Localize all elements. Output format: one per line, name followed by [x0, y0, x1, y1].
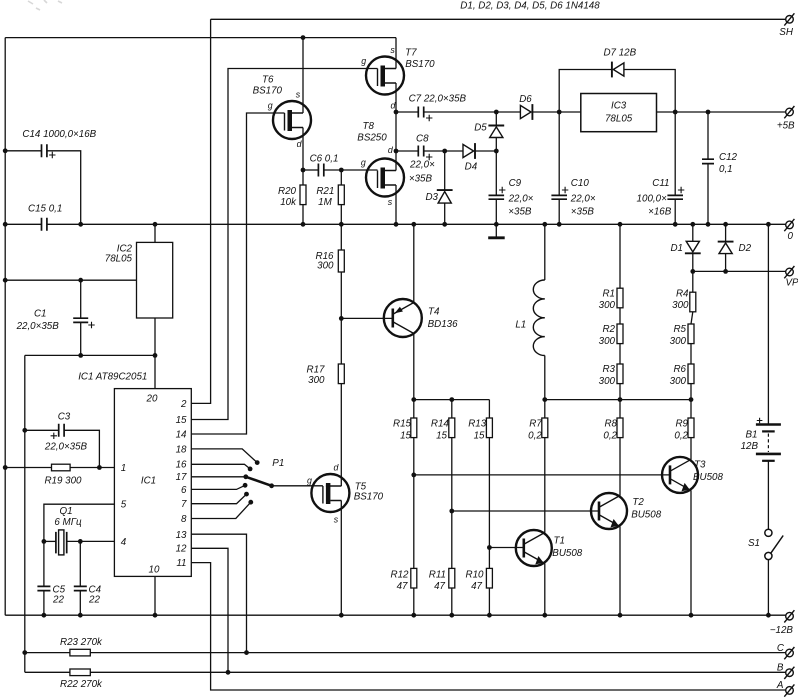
wire left border — [4, 38, 6, 616]
junction D4 C9 node — [494, 149, 499, 154]
svg-text:×16B: ×16B — [648, 206, 672, 217]
wire top SH rail — [211, 18, 786, 20]
junction R1 0 rail — [618, 222, 623, 227]
wire IC2 top pin — [154, 224, 156, 242]
svg-text:6: 6 — [181, 485, 187, 496]
resistor R2 — [617, 324, 623, 344]
svg-text:D2: D2 — [739, 243, 752, 254]
terminal VP — [784, 266, 794, 278]
svg-text:300: 300 — [670, 336, 687, 347]
svg-text:BU508: BU508 — [552, 548, 583, 559]
plus C9 — [499, 187, 505, 193]
svg-text:12B: 12B — [741, 441, 759, 452]
wire C4 to -12 rail — [79, 591, 81, 616]
IC2 box — [137, 242, 173, 318]
diode D3 — [437, 190, 453, 203]
svg-text:R2: R2 — [602, 324, 615, 335]
resistor R8 — [617, 418, 623, 438]
resistor R16 — [338, 250, 344, 272]
wire T6 source to rail — [302, 38, 304, 113]
terminal A — [784, 684, 794, 696]
junction left border C14 row — [3, 148, 8, 153]
wire L1 bottom leg — [544, 356, 546, 400]
wire R20 leg — [302, 170, 304, 224]
wire D5 node to D6 — [496, 111, 520, 113]
wire C10 leg lower — [558, 199, 560, 224]
junction T4 emitter 0 rail — [411, 222, 416, 227]
wire R8 to T2 collector — [619, 438, 621, 496]
plus C11 — [678, 187, 684, 193]
junction C11 0 rail — [673, 222, 678, 227]
svg-text:R19 300: R19 300 — [44, 476, 82, 487]
resistor R5 — [688, 324, 694, 344]
wire R4 top leg — [692, 271, 694, 292]
svg-text:s: s — [334, 514, 339, 524]
svg-text:R15: R15 — [393, 419, 412, 430]
wire R6 bottom — [690, 384, 692, 400]
svg-text:B1: B1 — [746, 430, 758, 441]
wire R13 top leg — [488, 400, 490, 418]
capacitor C1 — [73, 318, 88, 322]
wire T2 base row — [452, 510, 599, 512]
resistor R9 — [688, 418, 694, 438]
wire T6 gate from pin 14 — [191, 113, 284, 434]
terminal 0 — [784, 219, 794, 231]
junction C6 right R21 T8 gate — [339, 168, 344, 173]
svg-text:T3: T3 — [694, 460, 706, 471]
ground — [488, 236, 505, 239]
wire R5-R6 link — [690, 344, 692, 364]
wire -12B rail — [5, 614, 786, 616]
wire C12 leg lower — [707, 164, 709, 225]
svg-text:R23 270k: R23 270k — [60, 637, 103, 648]
wire R4-R5 link — [691, 312, 693, 324]
svg-text:T2: T2 — [632, 497, 644, 508]
wire T7 gate from pin 15 — [191, 69, 377, 420]
svg-text:T1: T1 — [554, 536, 565, 547]
transistor T5 — [311, 474, 349, 512]
svg-text:R9: R9 — [675, 419, 688, 430]
junction D2 VP row — [723, 269, 728, 274]
wire IC1 pin 10 — [154, 576, 156, 615]
wire battery to S1 — [767, 461, 769, 529]
wire row B — [25, 671, 70, 673]
wire pin 12 to row B — [191, 548, 228, 672]
svg-text:D1, D2, D3, D4, D5, D6 1N4148: D1, D2, D3, D4, D5, D6 1N4148 — [460, 1, 600, 12]
svg-text:C10: C10 — [571, 178, 590, 189]
terminal -12B — [784, 610, 794, 622]
junction D1 0 rail — [690, 222, 695, 227]
wire crystal row left — [44, 540, 56, 542]
terminal B — [784, 667, 794, 679]
svg-text:D4: D4 — [465, 162, 478, 173]
wire C5 leg — [43, 541, 45, 586]
terminal C — [784, 647, 794, 659]
svg-text:R21: R21 — [316, 186, 334, 197]
svg-text:R10: R10 — [466, 570, 485, 581]
svg-text:R4: R4 — [676, 288, 689, 299]
junction T3 emitter -12 rail — [689, 613, 694, 618]
svg-text:22,0×: 22,0× — [409, 160, 435, 171]
wire R2-R3 link — [619, 344, 621, 364]
resistor R6 — [688, 364, 694, 384]
svg-text:22: 22 — [88, 594, 100, 605]
junction left border 0 rail — [3, 222, 8, 227]
svg-text:g: g — [361, 158, 366, 168]
svg-text:C12: C12 — [719, 152, 738, 163]
svg-text:R12: R12 — [391, 570, 410, 581]
battery B1 — [756, 425, 781, 461]
svg-text:C7 22,0×35B: C7 22,0×35B — [409, 94, 467, 105]
svg-text:Q1: Q1 — [59, 506, 72, 517]
wire pin 7 stub — [191, 494, 246, 504]
svg-text:300: 300 — [308, 375, 325, 386]
svg-text:×35B: ×35B — [409, 173, 433, 184]
svg-text:7: 7 — [181, 499, 187, 510]
wire D2 top leg — [725, 224, 727, 241]
wire VP row — [693, 270, 786, 272]
transistor T4 — [384, 299, 422, 337]
wire R10 to -12 rail — [488, 588, 490, 615]
wire second top rail — [5, 37, 396, 39]
wire D7 to output corner — [624, 70, 675, 113]
junction R3 R8 node — [618, 397, 623, 402]
wire pin 13 to row C — [191, 534, 246, 652]
wire R1 chain top — [619, 224, 621, 288]
wire row B right — [90, 671, 786, 673]
diode D4 — [463, 143, 475, 159]
svg-text:R14: R14 — [431, 419, 450, 430]
svg-text:VP: VP — [786, 277, 798, 288]
transistor T1 — [516, 530, 552, 566]
junction C5 -12 rail — [42, 613, 47, 618]
junction R13 R10 T1 base — [487, 545, 492, 550]
wire C14 row left — [5, 150, 41, 152]
junction R20 0 rail — [301, 222, 306, 227]
wire row C right — [90, 652, 786, 654]
resistor R17 — [338, 364, 344, 384]
wire C8 row — [396, 150, 418, 152]
svg-text:6 МГц: 6 МГц — [54, 517, 82, 528]
svg-text:300: 300 — [672, 300, 689, 311]
svg-text:R22 270k: R22 270k — [60, 679, 103, 690]
capacitor C14 — [42, 144, 47, 157]
IC1 box — [114, 389, 191, 577]
junction crystal left — [42, 539, 47, 544]
wire T7 source — [395, 38, 397, 69]
wire VCC to IC1 pin 20 — [154, 355, 156, 388]
wire IC2 input row — [5, 279, 136, 281]
junction R6 R9 node — [689, 397, 694, 402]
capacitor C11 — [667, 195, 683, 199]
svg-text:C6 0,1: C6 0,1 — [310, 154, 339, 165]
resistor R21 — [338, 185, 344, 205]
junction IC2 top pin — [153, 222, 158, 227]
wire D1 top leg — [692, 224, 694, 241]
svg-text:C9: C9 — [509, 178, 522, 189]
svg-text:22,0×35B: 22,0×35B — [16, 321, 60, 332]
svg-text:R5: R5 — [673, 324, 686, 335]
svg-text:R20: R20 — [278, 186, 297, 197]
svg-text:300: 300 — [599, 300, 616, 311]
wire D5 to C9 node — [495, 138, 497, 152]
junction T1 emitter -12 rail — [542, 613, 547, 618]
wire C6 row to T8 gate — [324, 169, 378, 171]
wire R8 top leg — [619, 400, 621, 418]
transistor T3 — [662, 457, 698, 493]
svg-text:R1: R1 — [602, 288, 615, 299]
svg-text:10: 10 — [149, 565, 160, 576]
wire R19 to pin 1 — [70, 467, 114, 469]
svg-text:BS170: BS170 — [405, 59, 435, 70]
svg-text:T4: T4 — [428, 306, 440, 317]
resistor R7 — [542, 418, 548, 438]
wire R9 top leg — [690, 400, 692, 418]
svg-text:0,2: 0,2 — [528, 431, 542, 442]
capacitor C6 — [318, 164, 323, 177]
terminal +5B — [784, 106, 794, 118]
junction C10 0 rail — [557, 222, 562, 227]
svg-text:BS170: BS170 — [354, 492, 384, 503]
resistor R22 — [70, 669, 90, 676]
resistor R4 — [690, 292, 696, 312]
junction L1 0 rail — [542, 222, 547, 227]
svg-text:D1: D1 — [670, 243, 683, 254]
wire pin 1 row — [5, 467, 51, 469]
diode D2 — [718, 242, 734, 254]
resistor R13 — [486, 418, 492, 438]
wire D2 bottom leg — [725, 254, 727, 272]
wire crystal row right — [67, 540, 115, 542]
wire C11 leg lower — [674, 199, 676, 224]
P1 contact pin 17 — [243, 474, 248, 479]
wire L1 top leg — [544, 224, 546, 280]
svg-text:g: g — [307, 475, 312, 485]
wire R13 bottom — [488, 438, 490, 569]
wire T6 drain to C6 row — [302, 128, 304, 171]
wire pin 17 stub — [191, 476, 246, 478]
junction R15 R12 T3 base — [411, 473, 416, 478]
resistor R1 — [617, 288, 623, 308]
wire D7 bypass — [559, 70, 612, 113]
svg-text:BU508: BU508 — [693, 472, 724, 483]
svg-text:2: 2 — [180, 399, 187, 410]
junction T6 source / rail — [301, 35, 306, 40]
wire pin2 column to top rail — [191, 19, 210, 403]
plus C1 — [88, 322, 94, 328]
transistor T8 — [366, 159, 404, 197]
svg-text:18: 18 — [176, 444, 187, 455]
wire IC3 out to +5B terminal — [657, 111, 787, 113]
svg-text:R8: R8 — [604, 419, 617, 430]
svg-text:SH: SH — [779, 27, 794, 38]
plus C7 — [426, 115, 432, 121]
svg-text:g: g — [361, 56, 366, 66]
wire node row L1-R9 — [545, 399, 691, 401]
svg-text:11: 11 — [176, 558, 186, 569]
svg-text:S1: S1 — [748, 538, 760, 549]
svg-text:B: B — [777, 663, 784, 674]
svg-text:15: 15 — [474, 431, 485, 442]
inductor L1 — [533, 280, 545, 356]
switch S1 — [765, 529, 783, 559]
wire C1 bottom leg — [80, 322, 82, 355]
junction pin12 row B — [226, 670, 231, 675]
svg-text:0,1: 0,1 — [719, 164, 733, 175]
svg-text:1: 1 — [121, 463, 126, 474]
svg-text:300: 300 — [317, 261, 334, 272]
wire C1 top leg — [80, 280, 82, 318]
junction D2 0 rail — [723, 222, 728, 227]
wire ground stem — [495, 224, 497, 238]
svg-text:22,0×35B: 22,0×35B — [44, 442, 88, 453]
wire T3 base row — [414, 474, 669, 476]
wire C12 leg upper — [707, 112, 709, 159]
svg-text:BD136: BD136 — [428, 319, 459, 330]
svg-text:A: A — [776, 680, 784, 691]
wire R7 top leg — [544, 400, 546, 418]
svg-text:×35B: ×35B — [508, 206, 532, 217]
junction C9 ground 0 rail — [494, 222, 499, 227]
wire D5 column — [495, 112, 497, 126]
wire C11 leg upper — [674, 112, 676, 195]
wire D4 to C9 node — [475, 150, 496, 152]
svg-text:300: 300 — [670, 376, 687, 387]
svg-text:14: 14 — [176, 429, 187, 440]
svg-text:22,0×: 22,0× — [508, 193, 534, 204]
svg-text:C14 1000,0×16B: C14 1000,0×16B — [22, 129, 96, 140]
svg-text:D7 12B: D7 12B — [603, 47, 636, 58]
wire T4 base row — [341, 317, 393, 319]
junction output node T7 T8 — [394, 110, 399, 115]
junction S1 -12 rail — [766, 613, 771, 618]
svg-text:+5B: +5B — [777, 120, 795, 131]
wire C5 to -12 rail — [43, 591, 45, 616]
svg-text:47: 47 — [434, 581, 445, 592]
svg-text:15: 15 — [176, 415, 187, 426]
wire S1 to -12 rail — [767, 560, 769, 615]
svg-text:T7: T7 — [405, 48, 417, 59]
capacitor C12 — [702, 159, 714, 163]
P1 contact pin 18 — [255, 460, 260, 465]
junction C8 D4 D3 node — [442, 149, 447, 154]
wire D6 to IC3 in — [532, 111, 580, 113]
svg-text:T8: T8 — [362, 121, 374, 132]
resistor R14 — [449, 418, 455, 438]
svg-text:15: 15 — [436, 431, 447, 442]
junction R14 top row — [449, 397, 454, 402]
junction T2 emitter -12 rail — [618, 613, 623, 618]
wire D3 leg — [444, 151, 446, 190]
svg-text:C11: C11 — [652, 178, 669, 189]
resistor R10 — [486, 568, 492, 588]
junction T5 source -12 rail — [339, 613, 344, 618]
resistor R20 — [300, 185, 306, 205]
capacitor C8 — [418, 146, 423, 157]
junction B1 0 rail — [766, 222, 771, 227]
svg-text:100,0×: 100,0× — [637, 193, 668, 204]
junction C14 leg 0 rail — [78, 222, 83, 227]
P1 contact pin 16 — [248, 467, 253, 472]
plus C8 — [426, 154, 432, 160]
svg-text:R7: R7 — [529, 419, 542, 430]
wire R16 top — [340, 224, 342, 250]
junction R21 R16 0 rail — [339, 222, 344, 227]
junction R14 R11 T2 base — [449, 509, 454, 514]
wire T5 source to -12 rail — [340, 501, 342, 616]
junction C3 R19 pin1 — [97, 465, 102, 470]
capacitor C7 — [418, 107, 423, 118]
svg-text:300: 300 — [599, 336, 616, 347]
capacitor C3 — [59, 424, 64, 437]
svg-text:1M: 1M — [318, 197, 332, 208]
svg-text:BS250: BS250 — [357, 132, 387, 143]
svg-text:20: 20 — [146, 394, 158, 405]
wire C9 leg lower — [495, 199, 497, 224]
wire R12 to -12 rail — [413, 588, 415, 615]
wire R9 to T3 collector — [690, 438, 692, 460]
capacitor C9 — [489, 195, 505, 199]
P1 contact pin 6 — [243, 483, 248, 488]
svg-text:D6: D6 — [519, 94, 532, 105]
junction R16 R17 T4 base — [339, 316, 344, 321]
P1 contact pin 7 — [244, 492, 249, 497]
svg-text:−12B: −12B — [770, 625, 794, 636]
junction C6 left T6 drain — [301, 168, 306, 173]
wire D3 to 0 rail — [444, 203, 446, 224]
svg-text:5: 5 — [121, 500, 127, 511]
wire C6 row left — [303, 169, 318, 171]
wire T4 collector to R15 — [413, 334, 415, 419]
transistor T6 — [273, 101, 311, 139]
junction C4 crystal row — [78, 539, 83, 544]
wire T1 base row — [489, 547, 523, 549]
wire R14 bottom — [451, 438, 453, 569]
wire row C — [25, 652, 70, 654]
svg-text:10k: 10k — [280, 197, 297, 208]
resistor R15 — [411, 418, 417, 438]
wire pin 6 stub — [191, 485, 245, 489]
plus C3 — [51, 433, 57, 439]
svg-text:C8: C8 — [416, 133, 429, 144]
junction R12 -12 rail — [411, 613, 416, 618]
wire R3 bottom — [619, 384, 621, 400]
junction pin10 -12 rail — [153, 613, 158, 618]
wire R16 bottom to T4 base node — [340, 272, 342, 318]
svg-text:0,2: 0,2 — [674, 431, 688, 442]
wire 0 rail left of C15 — [5, 223, 41, 225]
transistor T7 — [366, 57, 404, 95]
svg-text:47: 47 — [471, 581, 482, 592]
svg-text:C: C — [777, 643, 785, 654]
svg-text:C15 0,1: C15 0,1 — [28, 204, 62, 215]
svg-text:s: s — [388, 197, 393, 207]
svg-text:T6: T6 — [262, 75, 274, 86]
svg-text:C3: C3 — [58, 412, 71, 423]
junction C11 +5B row — [673, 110, 678, 115]
wire VCC row — [25, 354, 155, 356]
junction left border pin1 row — [3, 465, 8, 470]
junction C12 0 rail — [706, 222, 711, 227]
P1 contact pin 8 — [248, 500, 253, 505]
resistor R3 — [617, 364, 623, 384]
wire VCC down to R22/R23 — [24, 355, 26, 672]
wire battery top leg — [767, 224, 769, 424]
svg-text:0,2: 0,2 — [603, 431, 617, 442]
wire T1 emitter to -12 rail — [544, 564, 546, 616]
wire C14 right leg — [47, 151, 81, 225]
svg-text:P1: P1 — [272, 458, 284, 469]
